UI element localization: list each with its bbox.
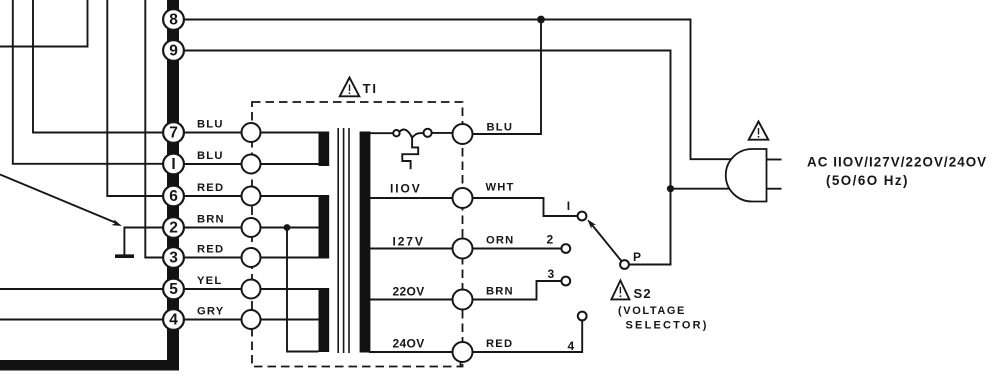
svg-text:I: I xyxy=(171,156,175,173)
svg-text:GRY: GRY xyxy=(197,306,224,318)
svg-text:RED: RED xyxy=(197,182,224,194)
svg-text:TI: TI xyxy=(363,81,378,96)
svg-text:BLU: BLU xyxy=(487,122,514,134)
svg-text:(VOLTAGE: (VOLTAGE xyxy=(618,305,686,317)
svg-text:4: 4 xyxy=(169,312,178,329)
svg-text:BRN: BRN xyxy=(197,214,225,226)
svg-text:BLU: BLU xyxy=(197,150,224,162)
svg-text:ORN: ORN xyxy=(486,235,514,247)
svg-text:RED: RED xyxy=(197,244,224,256)
svg-text:YEL: YEL xyxy=(197,275,222,287)
svg-text:5: 5 xyxy=(169,281,178,298)
svg-text:8: 8 xyxy=(169,12,178,29)
svg-text:BLU: BLU xyxy=(197,119,224,131)
svg-text:I: I xyxy=(567,199,570,213)
svg-text:6: 6 xyxy=(169,188,178,205)
svg-text:RED: RED xyxy=(486,338,513,350)
svg-text:22OV: 22OV xyxy=(393,285,425,299)
svg-text:9: 9 xyxy=(169,43,178,60)
svg-text:SELECTOR): SELECTOR) xyxy=(626,320,709,332)
svg-text:IIOV: IIOV xyxy=(390,182,422,196)
svg-text:I27V: I27V xyxy=(393,235,425,249)
svg-text:24OV: 24OV xyxy=(393,337,425,351)
svg-text:BRN: BRN xyxy=(486,286,514,298)
svg-text:S2: S2 xyxy=(634,286,652,301)
svg-text:WHT: WHT xyxy=(486,182,515,194)
svg-text:7: 7 xyxy=(169,125,178,142)
svg-text:(5O/6O Hz): (5O/6O Hz) xyxy=(826,173,909,188)
svg-text:AC IIOV/I27V/22OV/24OV: AC IIOV/I27V/22OV/24OV xyxy=(807,155,987,170)
svg-text:P: P xyxy=(633,250,641,264)
svg-text:3: 3 xyxy=(548,267,555,281)
svg-text:2: 2 xyxy=(547,232,554,246)
svg-text:4: 4 xyxy=(568,339,575,353)
svg-text:2: 2 xyxy=(169,220,178,237)
svg-text:3: 3 xyxy=(169,250,178,267)
